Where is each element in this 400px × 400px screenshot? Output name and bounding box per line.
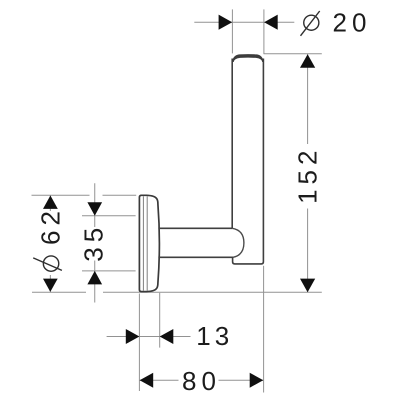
arrow dia20 right: [264, 15, 278, 30]
post left edge: [231, 59, 233, 229]
dimension line 80: [140, 379, 264, 381]
extension line dia20 left: [231, 9, 233, 53]
post top cap rim: [232, 54, 263, 62]
svg-text:20: 20: [333, 7, 372, 37]
arrow 13 left: [126, 329, 140, 344]
dimension line 152: [307, 54, 309, 292]
extension line 35 bottom: [82, 270, 136, 272]
arm bottom edge: [158, 256, 233, 258]
extension line dia20 right: [263, 9, 265, 54]
arrow 152 top: [300, 54, 315, 68]
extension line 13 left / 80 left: [138, 294, 140, 392]
svg-text:152: 152: [293, 146, 323, 204]
svg-text:62: 62: [36, 206, 66, 245]
dimension line 13: [107, 336, 191, 338]
wall plate outline: [139, 195, 159, 291]
arrow 35 bottom: [87, 271, 102, 285]
svg-text:13: 13: [196, 321, 233, 351]
dimension line 62: [49, 196, 51, 292]
extension line 13 right: [159, 293, 161, 348]
arrow 80 right: [250, 373, 264, 388]
diameter symbol left: [33, 256, 62, 271]
arm top edge: [158, 227, 232, 229]
arrow 80 left: [140, 373, 154, 388]
diameter symbol top: [301, 11, 320, 36]
extension line 80 right: [263, 266, 265, 393]
arrow 62 bottom: [43, 279, 58, 292]
post right edge and bottom: [233, 59, 264, 264]
extension line 35 top: [82, 215, 136, 217]
arrow 13 right: [160, 329, 174, 344]
arrow 152 bottom: [300, 279, 315, 293]
arrow 62 top: [43, 196, 58, 209]
dimension line dia20: [194, 21, 294, 23]
extension line 62 bottom / 152 bottom: [32, 291, 322, 293]
dimension line 35: [94, 183, 96, 302]
wall plate inner step lines: [143, 196, 147, 291]
arrow 35 top: [87, 202, 102, 216]
extension line 152 top: [264, 53, 322, 55]
svg-text:80: 80: [182, 366, 221, 396]
arrow dia20 left: [219, 15, 233, 30]
svg-text:35: 35: [78, 223, 108, 262]
arm end cap: [232, 228, 244, 257]
extension line 62 top: [32, 194, 137, 196]
